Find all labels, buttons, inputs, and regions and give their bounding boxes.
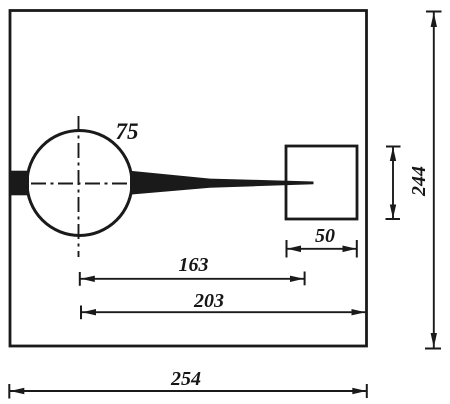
dim 50: left arrowhead [287, 246, 301, 253]
dim 254: left tick [8, 384, 10, 399]
svg-text:75: 75 [116, 119, 139, 144]
plate outline (rectangular part) [10, 11, 367, 347]
dim 203: dimension line [82, 311, 366, 313]
dim 254: left arrowhead [10, 388, 24, 394]
dim 244: down arrowhead [431, 333, 437, 348]
dim 163: right tick [304, 272, 306, 286]
dim 254: right arrowhead [352, 388, 366, 394]
vertical dim beside square: up arrowhead [390, 147, 396, 161]
vertical dim beside square: bottom tick [386, 218, 401, 220]
svg-text:254: 254 [170, 368, 201, 390]
dim 244: top tick [426, 11, 442, 13]
dim 203: left arrowhead [82, 309, 96, 315]
dim 163: left tick [79, 272, 81, 286]
dim 203: left tick [80, 306, 82, 320]
vertical centerline of circle [78, 116, 80, 257]
slot: black bar left of circle [11, 171, 30, 196]
dim 50: dimension line [287, 248, 357, 250]
vertical dim beside square: dimension line [392, 147, 394, 219]
dim 50: right arrowhead [343, 246, 357, 253]
svg-text:203: 203 [193, 290, 224, 312]
slot: tapered black wedge from circle to square [130, 171, 314, 195]
dim 50: right extension tick [356, 240, 358, 258]
dim 244: up arrowhead [431, 13, 437, 28]
vertical dim beside square: top tick [386, 146, 401, 148]
dim 163: left arrowhead [81, 276, 95, 282]
dim 50: left extension tick [286, 240, 288, 258]
square hole (50) [286, 146, 357, 219]
dim 163: right arrowhead [290, 276, 304, 282]
vertical dim beside square: down arrowhead [390, 205, 396, 219]
dim 244: dimension line [433, 13, 435, 348]
dim 203: right arrowhead [352, 309, 366, 315]
dim 244: bottom tick [425, 348, 441, 350]
svg-text:163: 163 [179, 254, 209, 276]
dim 254: dimension line [10, 390, 366, 392]
circular hole (dia 75) [27, 131, 132, 236]
dim 163: dimension line [81, 278, 305, 280]
svg-text:244: 244 [408, 166, 430, 197]
dim 254: right tick [366, 384, 368, 398]
horizontal centerline of circle [31, 183, 134, 185]
svg-text:50: 50 [315, 225, 335, 247]
